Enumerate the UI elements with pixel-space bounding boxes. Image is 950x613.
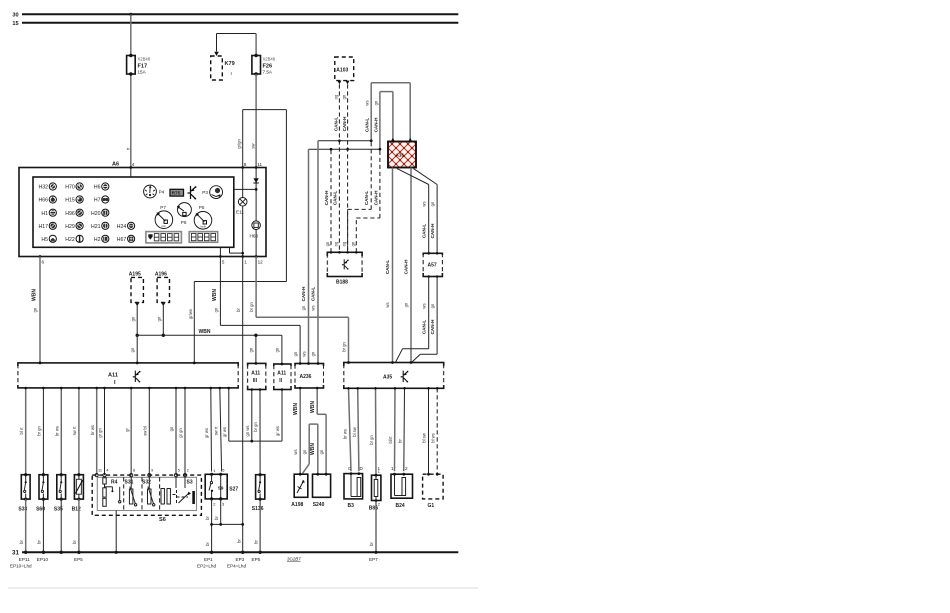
S136 feed from A11 III [253,388,261,475]
lamp H66 [49,196,56,203]
svg-text:gr ws: gr ws [275,426,280,436]
S27 feeds [204,387,222,472]
switch S136 [252,473,265,554]
ground rail 31 [12,550,458,557]
svg-text:H6: H6 [94,185,101,191]
svg-text:bl/rt: bl/rt [388,436,393,444]
svg-text:br gn: br gn [253,422,258,432]
svg-text:A198: A198 [291,502,303,508]
wire bus30 to fuse F17 [125,14,131,167]
svg-text:P4: P4 [159,189,165,194]
svg-text:R4: R4 [111,480,118,486]
connector A195 [129,272,144,337]
svg-text:B86: B86 [369,506,378,512]
CAN dashed pair from A103 to B188 [333,84,349,252]
temp sender symbol [188,186,197,200]
lamp H32 [49,183,56,190]
svg-text:A196: A196 [155,272,167,278]
svg-text:ws: ws [310,305,315,310]
svg-text:og: og [333,241,338,246]
svg-text:br: br [253,540,258,544]
svg-text:CAN-L: CAN-L [334,117,339,131]
svg-text:gr/ws: gr/ws [188,309,193,319]
svg-text:CAN-H: CAN-H [301,286,306,301]
svg-text:og: og [342,241,347,246]
svg-text:CAN-H: CAN-H [404,259,409,274]
sensor B24 [391,473,413,509]
svg-text:km/h: km/h [201,225,207,229]
svg-text:5: 5 [222,260,225,265]
svg-text:CAN-H: CAN-H [430,319,435,334]
resistor R4 elements [103,478,106,484]
S3 resistors [161,489,164,505]
svg-text:H21: H21 [91,224,101,230]
svg-text:2: 2 [405,466,408,471]
svg-text:A11: A11 [108,373,118,379]
svg-text:gn: gn [350,241,355,246]
svg-text:gn: gn [302,449,307,454]
svg-text:30: 30 [12,13,18,19]
svg-text:br: br [369,542,374,546]
display 1 [146,232,182,243]
wire cluster pin8 loop to A11 pin [188,110,286,363]
lamp H6 [102,183,109,190]
svg-text:CAN-L: CAN-L [332,191,337,205]
control unit A198 [291,473,308,508]
svg-text:H32: H32 [38,185,48,191]
svg-text:gn: gn [311,351,316,356]
gauge P6 [177,203,192,225]
fuse F26 [250,34,275,168]
svg-text:ws: ws [364,100,369,105]
S31 [129,489,133,504]
bottom components [18,468,443,555]
svg-text:S6: S6 [159,517,166,523]
svg-text:sw bl: sw bl [143,426,148,436]
svg-text:A103: A103 [336,68,348,74]
gauge P7 [155,205,173,229]
svg-text:gn: gn [275,347,280,352]
svg-text:CAN-L: CAN-L [310,287,315,301]
svg-text:H96: H96 [65,211,75,217]
svg-text:WBN: WBN [31,289,37,301]
wires to S6 [96,388,98,475]
svg-text:ws: ws [293,449,298,454]
bus 15 [12,21,458,27]
left bank wires below A11 [19,387,186,475]
svg-text:gr ws: gr ws [222,427,227,437]
svg-text:G1: G1 [428,503,435,509]
svg-text:br: br [37,540,42,544]
svg-text:A35: A35 [383,375,392,381]
svg-text:EP5: EP5 [74,557,83,562]
connector A196 [155,272,170,337]
svg-text:2: 2 [378,503,380,507]
svg-text:P7: P7 [160,205,166,210]
svg-text:gn: gn [249,347,254,352]
svg-text:S27: S27 [229,487,238,493]
svg-text:CAN-L: CAN-L [385,260,390,274]
lamp H7 [102,196,109,203]
svg-text:H15: H15 [65,198,75,204]
svg-text:WBN: WBN [310,443,316,455]
svg-text:12: 12 [258,260,264,265]
svg-text:EP10: EP10 [37,557,49,562]
control unit B188 [327,251,362,286]
svg-text:X2B48: X2B48 [138,57,151,62]
svg-text:gr gn: gr gn [98,428,103,438]
wire to S35 [60,388,62,475]
wire pin6 to A11 [31,257,40,363]
svg-text:CAN-H: CAN-H [373,117,378,132]
gauge P5 [194,205,212,229]
svg-text:1: 1 [378,470,380,474]
svg-text:7.5A: 7.5A [263,70,273,75]
control unit A103 [335,57,354,84]
switch S240 [313,473,331,508]
svg-text:ws: ws [385,302,390,307]
wire diagonals to A57 branch [397,169,437,254]
svg-text:ws: ws [422,201,427,206]
link A11 I / A11 III / A11 II pins [222,387,283,443]
svg-text:CAN-L: CAN-L [364,118,369,132]
svg-text:H22: H22 [65,237,75,243]
svg-text:EP11: EP11 [19,557,30,562]
svg-text:CAN-H: CAN-H [342,116,347,131]
svg-text:2: 2 [187,469,189,473]
svg-text:P5: P5 [199,205,205,210]
svg-text:1: 1 [244,260,247,265]
lamp H96 [76,209,83,216]
svg-text:CAN-H: CAN-H [324,190,329,205]
svg-text:EP2=Lhd: EP2=Lhd [197,564,216,569]
svg-text:gn: gn [130,316,135,321]
svg-text:br ws: br ws [54,426,59,436]
svg-text:H66: H66 [38,198,48,204]
svg-text:III: III [253,378,258,384]
generator G1 [423,473,444,509]
B188 pin4 dashed step up [348,139,382,252]
connector A11 I [18,362,238,388]
svg-text:H17: H17 [38,224,48,230]
svg-text:WBN: WBN [293,403,299,415]
svg-text:K79: K79 [225,61,235,67]
svg-text:gn: gn [130,347,135,352]
svg-text:CAN-L: CAN-L [422,320,427,334]
gauges [144,185,223,243]
lamp H24 [128,222,135,229]
svg-text:CAN-L: CAN-L [364,191,369,205]
svg-text:gn: gn [373,100,378,105]
wire to S33 [25,388,27,475]
sender B12 [72,473,84,554]
svg-text:gn: gn [169,426,174,431]
svg-text:br ws: br ws [90,425,95,435]
svg-text:H20: H20 [91,211,101,217]
svg-text:A11: A11 [277,371,286,377]
A236 WBN drops [293,387,326,475]
connector A57 [423,252,442,278]
svg-text:4: 4 [132,162,135,167]
svg-text:15: 15 [12,21,18,27]
wire F26 to cluster pin 11 [255,74,257,168]
svg-text:br gn: br gn [369,435,374,445]
svg-text:P6: P6 [181,220,187,225]
gauge P4 [144,185,165,198]
svg-text:ws: ws [422,303,427,308]
svg-text:br gn: br gn [249,302,254,312]
svg-text:gn: gn [319,449,324,454]
connector A11 III [248,362,266,390]
svg-text:og: og [333,94,338,99]
CAN trunk below hatched box to A35 [385,168,411,363]
wire CAN-L / CAN-H junction rails to A236 [301,141,380,364]
svg-text:A11: A11 [251,371,260,377]
svg-text:br ws: br ws [343,429,348,439]
WBN bus to A11 II / A11 III [130,329,282,364]
sensor B3 [344,472,363,509]
svg-text:S240: S240 [313,502,325,508]
lamp H5 [49,235,56,242]
svg-text:8: 8 [133,469,135,473]
svg-text:S31: S31 [125,480,134,486]
svg-text:A236: A236 [300,374,312,380]
svg-text:1: 1 [391,466,394,471]
svg-text:3G2B7: 3G2B7 [287,556,301,561]
svg-text:gn: gn [301,305,306,310]
svg-text:gr: gr [124,428,129,432]
svg-text:EP1: EP1 [204,557,213,562]
svg-text:H29: H29 [65,224,75,230]
wire pin5 to A236 [212,257,300,364]
gauge P3 [202,186,222,199]
svg-text:EP5: EP5 [252,557,261,562]
diode [234,168,259,221]
svg-text:WBN: WBN [199,329,211,335]
control unit A35 [344,361,444,388]
svg-text:11: 11 [257,162,262,167]
svg-text:H2: H2 [94,237,101,243]
display 2 [189,232,218,243]
svg-text:E11: E11 [236,210,244,215]
svg-text:CAN-H: CAN-H [430,223,435,238]
svg-text:gn: gn [214,307,219,312]
svg-text:bl sw: bl sw [421,432,426,443]
svg-text:CAN-H: CAN-H [374,190,379,205]
svg-text:31: 31 [12,550,19,557]
svg-text:9: 9 [151,469,153,473]
sensor B86 [369,470,381,554]
svg-text:br: br [205,542,210,546]
svg-text:sw rt: sw rt [213,426,218,436]
fuse F17 [127,54,151,76]
svg-text:gn: gn [430,201,435,206]
svg-text:4: 4 [106,469,108,473]
svg-text:6: 6 [42,260,45,265]
lamp H29 [76,222,83,229]
svg-text:11: 11 [98,469,102,473]
svg-text:bl ws: bl ws [430,433,435,443]
svg-text:B188: B188 [336,280,348,286]
lamp H1 [49,209,56,216]
svg-text:gn: gn [293,351,298,356]
svg-text:br: br [19,540,24,544]
svg-text:A6: A6 [112,162,119,168]
svg-text:A57: A57 [428,263,437,269]
svg-text:br gn: br gn [342,342,347,352]
svg-text:EP3: EP3 [236,557,245,562]
svg-text:bl sw: bl sw [352,426,357,437]
svg-text:A16: A16 [396,153,405,158]
lamp H17 [49,222,56,229]
svg-text:bl rt: bl rt [19,427,24,435]
A35 outputs to B3 B86 B24 G1 [343,387,439,474]
switch S35 [54,473,66,554]
svg-text:ws: ws [301,351,306,356]
svg-text:P3: P3 [202,190,208,195]
lamps grid [49,183,135,243]
svg-text:gn ws: gn ws [245,426,250,437]
svg-text:gn: gn [430,303,435,308]
instrument cluster A6 [19,162,266,257]
svg-text:br: br [72,540,77,544]
wire internal stubs pin5 / pin1 junction [220,247,244,256]
switch S33 [18,473,30,554]
instrument cluster inner box [33,168,234,248]
lamp H2 [102,235,109,242]
lamp H67 [128,235,135,242]
svg-text:EP4=Lhd: EP4=Lhd [227,564,246,569]
svg-text:15A: 15A [138,70,147,75]
svg-text:X2B48: X2B48 [263,57,276,62]
svg-text:br: br [214,516,219,520]
svg-text:S9: S9 [218,485,224,490]
bus 30 [12,13,458,19]
svg-text:I: I [231,71,232,76]
svg-text:gn: gn [33,307,38,312]
connector A16 (hatched) [388,138,416,168]
svg-text:H5: H5 [41,237,48,243]
svg-text:H24: H24 [117,224,127,230]
buzzer H63 [250,221,261,257]
control unit A236 [293,351,324,388]
svg-text:8: 8 [244,162,247,167]
S6 ground lead [115,511,117,553]
wire to B12 [78,388,80,475]
svg-text:gr/gn: gr/gn [237,139,242,149]
lamp H70 [76,183,83,190]
svg-text:rpm: rpm [162,224,166,228]
cluster bottom pins [39,255,264,264]
svg-text:WBN: WBN [310,401,316,413]
lamp H20 [102,209,109,216]
EP labels [8,556,478,588]
switch S60 [36,473,48,554]
E11 lamp [236,168,247,257]
svg-text:CAN-L: CAN-L [422,224,427,238]
svg-text:B3: B3 [348,503,355,509]
svg-text:H7: H7 [94,198,101,204]
svg-text:br gn: br gn [37,426,42,436]
svg-text:WBN: WBN [212,289,218,301]
svg-text:A195: A195 [129,272,141,278]
switch S27 [205,468,245,555]
wire to S60 [42,388,44,475]
wire CAN trunk loops to connector X [364,83,410,150]
connector A11 II [274,363,291,390]
svg-text:R75: R75 [172,191,181,197]
svg-text:br: br [236,308,241,312]
pi loop A198/S240 [309,423,318,425]
svg-text:br: br [205,516,210,520]
B188 pin1 dashed up [324,148,355,252]
svg-text:EP10=Lhd: EP10=Lhd [10,564,32,569]
svg-text:gn: gn [156,316,161,321]
svg-text:H67: H67 [117,237,127,243]
lamp H21 [102,222,109,229]
svg-text:sw rt: sw rt [72,426,77,436]
resistor R75 [170,189,184,196]
svg-text:H1: H1 [41,211,48,217]
svg-text:gn: gn [325,241,330,246]
lamp H22 [76,235,83,242]
svg-text:H70: H70 [65,185,75,191]
wire pin1 to ground EP3 [236,257,243,553]
svg-text:br: br [236,539,241,543]
svg-text:H63: H63 [250,234,259,239]
svg-text:gr gn: gr gn [178,428,183,438]
unit S6 [92,469,201,554]
svg-text:gn: gn [342,94,347,99]
svg-text:5: 5 [178,469,180,473]
svg-text:EP7: EP7 [369,557,378,562]
S3 switch [175,477,177,488]
wire pin12 to A35 [249,257,349,363]
svg-text:gn: gn [404,302,409,307]
svg-text:gr ws: gr ws [204,428,209,438]
svg-text:S136: S136 [252,506,264,512]
svg-text:S3: S3 [187,480,193,486]
wire A57 returns to A35 [395,277,437,363]
S32 [148,489,152,504]
relay K79 [211,34,256,81]
svg-text:B24: B24 [396,503,405,509]
svg-text:br: br [398,439,403,443]
lamp H15 [76,196,83,203]
